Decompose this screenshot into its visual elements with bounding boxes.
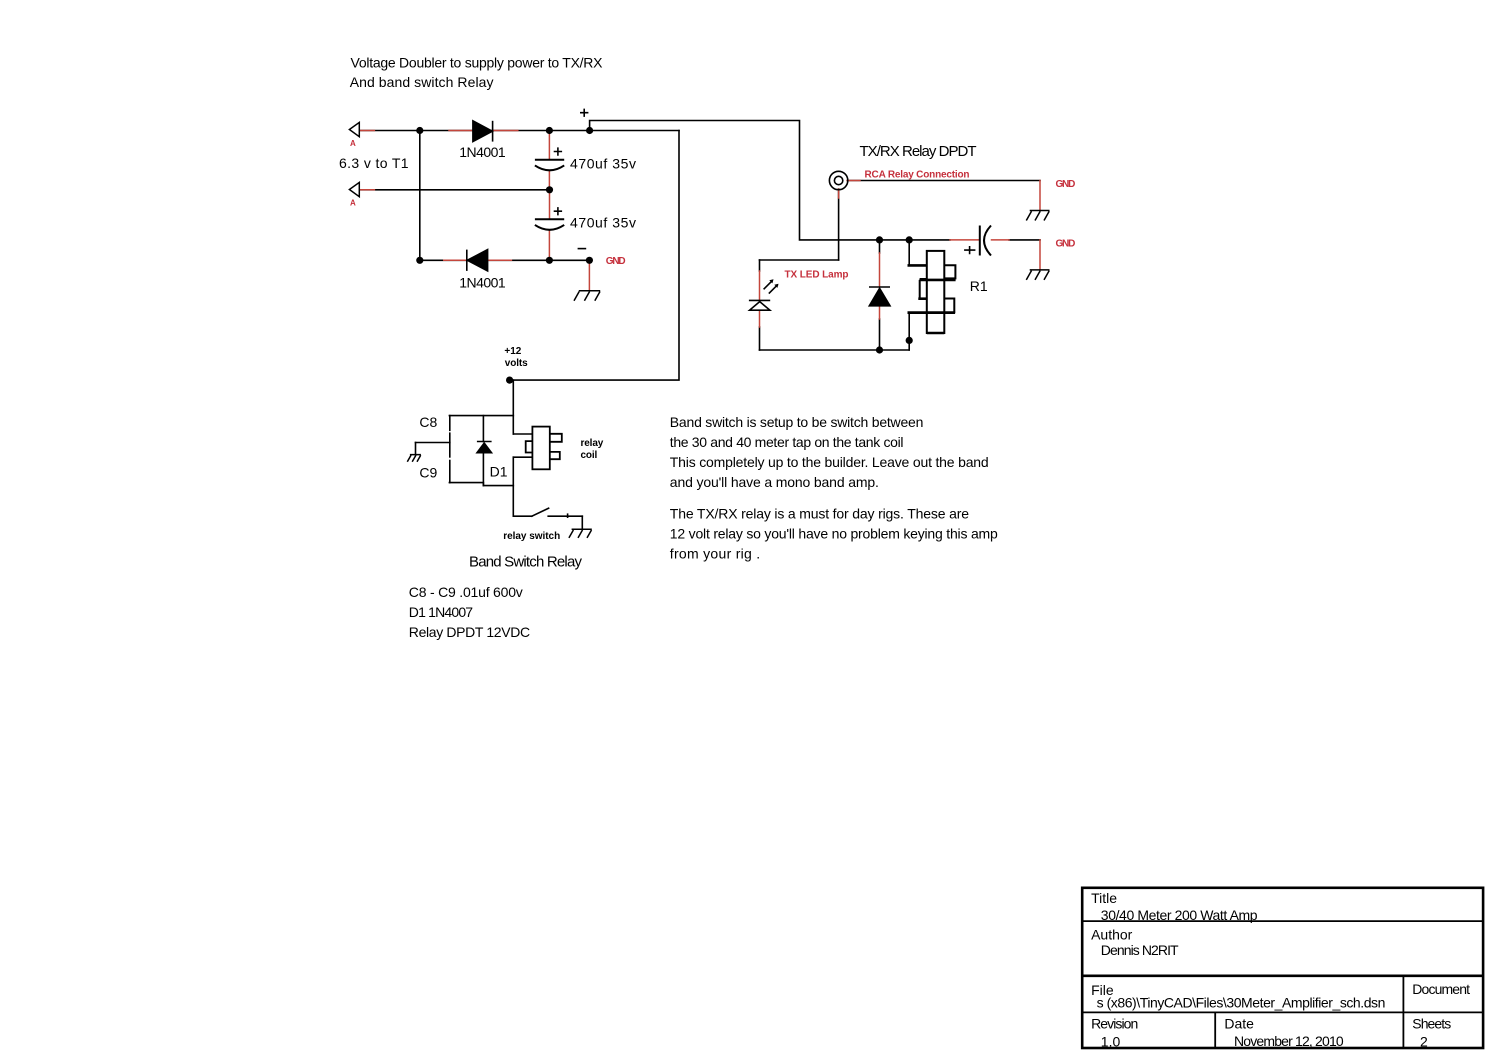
svg-text:GND: GND	[606, 256, 626, 267]
svg-text:Document: Document	[1412, 981, 1470, 997]
svg-text:C8 - C9 .01uf 600v: C8 - C9 .01uf 600v	[409, 584, 523, 600]
svg-text:A: A	[350, 199, 356, 208]
svg-text:And band switch Relay: And band switch Relay	[350, 74, 494, 90]
svg-text:TX/RX Relay DPDT: TX/RX Relay DPDT	[860, 143, 977, 160]
svg-text:Title: Title	[1091, 890, 1117, 906]
svg-text:the 30 and 40 meter tap on the: the 30 and 40 meter tap on the tank coil	[670, 434, 904, 450]
svg-text:R1: R1	[970, 278, 988, 294]
svg-text:Revision: Revision	[1091, 1016, 1138, 1032]
svg-text:November 12, 2010: November 12, 2010	[1234, 1033, 1344, 1049]
svg-text:GND: GND	[1056, 179, 1076, 190]
svg-text:12 volt relay so you'll have n: 12 volt relay so you'll have no problem …	[670, 526, 998, 542]
svg-text:1.0: 1.0	[1101, 1034, 1121, 1050]
svg-text:30/40 Meter 200 Watt Amp: 30/40 Meter 200 Watt Amp	[1101, 907, 1258, 923]
svg-text:Author: Author	[1091, 927, 1133, 943]
svg-text:C8: C8	[419, 414, 437, 430]
svg-text:6.3 v to T1: 6.3 v to T1	[339, 155, 409, 171]
svg-text:470uf 35v: 470uf 35v	[570, 215, 636, 231]
svg-text:Voltage Doubler to supply powe: Voltage Doubler to supply power to TX/RX	[351, 55, 604, 71]
svg-text:This completely up to the buil: This completely up to the builder. Leave…	[670, 454, 989, 470]
svg-text:D1 1N4007: D1 1N4007	[409, 604, 474, 620]
svg-text:relay: relay	[581, 438, 604, 449]
svg-text:coil: coil	[581, 450, 598, 461]
svg-text:from your rig .: from your rig .	[670, 546, 760, 562]
svg-text:2: 2	[1420, 1034, 1428, 1050]
svg-text:The TX/RX relay is a must for: The TX/RX relay is a must for day rigs. …	[670, 506, 969, 522]
svg-text:Band Switch Relay: Band Switch Relay	[469, 554, 583, 571]
svg-text:D1: D1	[490, 464, 508, 480]
svg-text:C9: C9	[419, 464, 437, 480]
svg-text:A: A	[350, 139, 356, 148]
svg-text:relay switch: relay switch	[503, 531, 560, 542]
svg-text:Date: Date	[1224, 1016, 1254, 1032]
svg-text:Relay DPDT 12VDC: Relay DPDT 12VDC	[409, 624, 530, 640]
svg-text:and you'll have a mono band am: and you'll have a mono band amp.	[670, 474, 879, 490]
svg-text:TX LED Lamp: TX LED Lamp	[785, 270, 849, 281]
svg-text:s (x86)\TinyCAD\Files\30Meter_: s (x86)\TinyCAD\Files\30Meter_Amplifier_…	[1097, 995, 1386, 1011]
svg-text:1N4001: 1N4001	[459, 144, 506, 160]
svg-text:470uf 35v: 470uf 35v	[570, 155, 636, 171]
svg-text:RCA Relay Connection: RCA Relay Connection	[865, 170, 970, 181]
svg-text:Sheets: Sheets	[1412, 1016, 1451, 1032]
svg-text:volts: volts	[505, 358, 528, 369]
svg-text:Band switch is setup to be swi: Band switch is setup to be switch betwee…	[670, 414, 924, 430]
svg-text:+12: +12	[504, 346, 521, 357]
svg-text:Dennis N2RIT: Dennis N2RIT	[1101, 942, 1179, 958]
svg-text:1N4001: 1N4001	[459, 274, 506, 290]
svg-text:GND: GND	[1056, 239, 1076, 250]
